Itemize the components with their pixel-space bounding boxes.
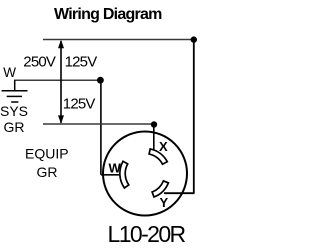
svg-text:W: W bbox=[3, 65, 16, 80]
wire: top supply line L1 bbox=[43, 39, 195, 41]
svg-text:W: W bbox=[109, 160, 122, 175]
svg-text:Y: Y bbox=[160, 195, 169, 210]
wire: lower supply line L2 bbox=[43, 123, 156, 125]
svg-text:125V: 125V bbox=[65, 53, 98, 70]
svg-text:GR: GR bbox=[4, 119, 25, 135]
svg-text:125V: 125V bbox=[63, 95, 96, 112]
node: junction dot top right bbox=[191, 36, 197, 42]
svg-text:EQUIP: EQUIP bbox=[25, 145, 69, 161]
wire: middle neutral line from W bbox=[14, 79, 101, 81]
wire: stub from neutral line down to ground bbox=[14, 80, 16, 90]
X slot bbox=[149, 149, 167, 164]
wire: right vertical to Y bbox=[193, 40, 195, 194]
wire: bottom horizontal into Y terminal bbox=[164, 192, 195, 194]
svg-text:X: X bbox=[159, 139, 168, 154]
svg-text:L10-20R: L10-20R bbox=[108, 221, 186, 247]
node: junction dot on L2 bbox=[151, 121, 157, 127]
wire: vertical drop from L2 dot to X terminal bbox=[153, 125, 155, 151]
node: junction dot on neutral bbox=[97, 77, 104, 84]
receptacle body circle bbox=[103, 132, 187, 216]
Y slot bbox=[152, 181, 168, 197]
wire: vertical drop from neutral dot to W terminal bbox=[100, 80, 102, 175]
svg-text:SYS: SYS bbox=[0, 103, 28, 119]
svg-text:Wiring Diagram: Wiring Diagram bbox=[54, 6, 162, 23]
ground: system ground symbol bbox=[2, 91, 28, 102]
svg-text:GR: GR bbox=[37, 164, 58, 180]
measurement arrow 250V span bbox=[58, 40, 64, 124]
svg-text:250V: 250V bbox=[23, 53, 56, 70]
wire: horizontal into W terminal bbox=[101, 174, 122, 176]
W slot bbox=[120, 161, 129, 188]
